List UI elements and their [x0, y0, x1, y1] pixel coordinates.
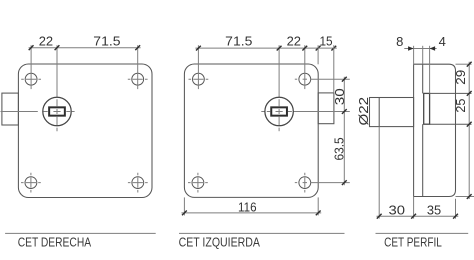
svg-text:22: 22 [287, 34, 301, 49]
svg-text:25: 25 [453, 99, 468, 113]
svg-text:4: 4 [439, 34, 446, 49]
svg-text:8: 8 [396, 34, 403, 49]
svg-text:CET PERFIL: CET PERFIL [384, 235, 442, 249]
svg-text:Ø22: Ø22 [356, 97, 371, 126]
svg-text:63.5: 63.5 [332, 137, 347, 160]
svg-text:22: 22 [39, 33, 53, 48]
svg-text:29: 29 [453, 70, 468, 85]
svg-text:71.5: 71.5 [93, 34, 120, 49]
svg-text:35: 35 [427, 202, 441, 217]
svg-text:116: 116 [238, 199, 257, 214]
svg-text:71.5: 71.5 [225, 34, 252, 49]
svg-text:30: 30 [389, 202, 406, 217]
svg-text:15: 15 [319, 34, 332, 49]
svg-text:30: 30 [332, 88, 347, 105]
svg-text:CET DERECHA: CET DERECHA [18, 235, 92, 249]
svg-text:CET IZQUIERDA: CET IZQUIERDA [179, 235, 261, 249]
